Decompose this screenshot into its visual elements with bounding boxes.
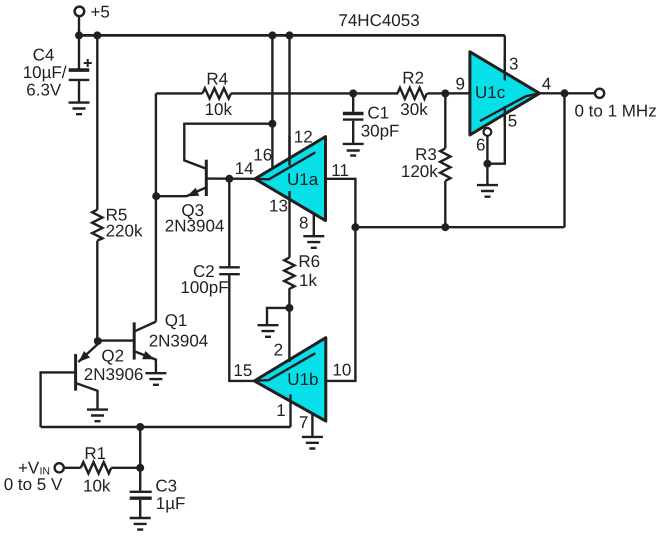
wire Q1 emitter diagonal [135,351,156,372]
wire pin12 into U1a [288,136,290,166]
multiplexer U1b [254,338,325,421]
resistor R3 [440,148,450,180]
capacitor C2 [219,266,240,268]
resistor R5 [92,210,102,241]
wire R4 right to C1 node [231,92,398,94]
wire Q3 base / pin14 [206,177,255,180]
resistor R2 [398,88,427,99]
wire input terminal to R1 [64,467,81,469]
svg-text:1µF: 1µF [156,494,186,513]
resistor R1 [81,462,111,473]
wire Q2 base [41,372,76,427]
wire pin4 output [540,92,596,94]
svg-text:30k: 30k [400,100,428,119]
junction Q3 base / C2 [225,175,233,183]
svg-text:C3: C3 [155,477,177,496]
resistor R4 [203,88,232,98]
junction rail at pin16 [268,31,276,39]
wire R1 to C3 junction [111,467,140,469]
svg-text:C1: C1 [367,104,389,123]
svg-text:1: 1 [276,401,285,420]
wire pin10 of U1b [326,227,356,381]
capacitor C1 [343,112,364,115]
svg-text:10µF/: 10µF/ [23,63,67,82]
junction output node [561,89,569,97]
wire R1/C3 junction vertical [139,427,141,491]
ground Q2 collector [87,410,108,422]
junction bottom rail / R1 [136,423,144,431]
svg-text:16: 16 [253,146,272,165]
wire pin3 drop from rail [504,35,506,80]
wire feedback rail [355,226,564,228]
svg-text:8: 8 [299,214,308,233]
wire top +5 rail [79,34,505,37]
ground U1b pin7 [302,437,323,449]
svg-text:6: 6 [476,135,485,154]
svg-text:9: 9 [456,75,465,94]
svg-text:R2: R2 [402,69,424,88]
ground C1 [343,144,364,156]
svg-text:U1b: U1b [287,370,318,389]
ground C4 [69,103,90,115]
svg-text:R1: R1 [84,444,106,463]
svg-text:10k: 10k [83,477,111,496]
junction pin5 / pin6 / ground [483,160,491,168]
wire pin11 of U1a [326,179,356,227]
svg-text:15: 15 [233,361,252,380]
wire R3 bottom [444,181,446,227]
junction C1 node [349,89,357,97]
terminal output [595,89,604,98]
wire R5 branch upper [96,35,98,209]
wire Q2 emitter diagonal [78,344,98,362]
svg-text:+5: +5 [91,3,110,22]
wire bottom rail [41,426,291,428]
wire pin2 into U1b [288,340,290,362]
svg-text:2N3904: 2N3904 [149,331,209,350]
junction R2/R3/pin9 [441,89,449,97]
wire pin6 to ground [486,136,488,185]
svg-text:2: 2 [274,341,283,360]
wire pin13 to R6 [288,199,290,258]
wire C1 bottom to ground [352,121,354,144]
wire pin5 inside U1c [504,106,506,121]
wire pin3 into U1c [504,55,506,81]
wire R3 top [444,93,446,148]
svg-text:13: 13 [269,196,288,215]
wire R6 bottom to pin2 [288,288,290,340]
wire C3 bottom to ground [139,500,141,518]
junction R1 / C3 [136,464,144,472]
capacitor C4 [69,68,90,72]
multiplexer U1c [470,52,540,135]
ground U1c pin6 [477,185,498,197]
terminal pin6 bubble [484,128,492,136]
capacitor C4 plus sign [84,59,92,67]
svg-text:U1c: U1c [475,83,506,102]
svg-text:30pF: 30pF [361,122,400,141]
wire R5 branch lower [96,241,98,342]
U1b wiper [256,353,316,381]
svg-text:6.3V: 6.3V [26,81,62,100]
wire output drop [563,93,565,227]
svg-text:220k: 220k [106,222,143,241]
wire pin8 to ground [313,213,315,235]
svg-text:100pF: 100pF [180,278,228,297]
wire C2 bottom to pin15 [229,275,254,381]
junction rail at R5 [93,31,101,39]
wire C2 top [228,179,230,266]
junction R5 / Q2 emitter / Q1 base [94,337,102,345]
svg-text:5: 5 [508,111,517,130]
multiplexer U1a [255,137,326,221]
svg-text:2N3904: 2N3904 [165,217,225,236]
svg-text:Q2: Q2 [101,347,124,366]
svg-text:Q1: Q1 [165,311,188,330]
svg-text:12: 12 [294,128,313,147]
transistor Q1 body [133,322,136,359]
svg-text:11: 11 [331,161,349,180]
svg-text:4: 4 [542,74,551,93]
arrow Q3 emitter [187,188,199,197]
wire pin1 into U1b [289,395,291,428]
wire R4 left branch vertical [155,93,157,321]
capacitor C3 [130,491,152,493]
terminal input VIN [55,463,64,472]
arrow Q2 emitter [79,351,91,362]
wire Q2 collector [76,383,97,408]
transistor Q2 body [74,354,77,391]
wire Q3 emitter [156,188,206,197]
junction pin11 / pin10 rail [351,223,359,231]
U1a wiper [256,152,315,179]
junction R3 bottom [441,223,449,231]
svg-text:120k: 120k [401,162,438,181]
ground Q1 emitter [145,373,166,385]
wire pin5 of U1c [487,106,504,164]
wire R2 right to pin 9 [427,92,470,94]
svg-text:U1a: U1a [287,170,319,189]
U1c wiper [480,94,538,121]
wire Q1 base [97,339,134,341]
junction rail at +5 [75,31,83,39]
wire C1 top [352,93,354,111]
svg-text:R6: R6 [298,252,320,271]
svg-text:2N3906: 2N3906 [84,365,144,384]
wire R4 left horizontal [156,92,202,94]
svg-text:1k: 1k [299,271,317,290]
ground U1a pin8 [303,236,324,248]
wire C4 bottom to ground [78,81,80,102]
arrow Q1 emitter [142,351,154,359]
wire Q3 collector [184,124,272,169]
wire Q1 collector diagonal [135,322,156,332]
junction Q3 emitter / R4 branch [152,192,160,200]
svg-text:74HC4053: 74HC4053 [338,11,419,30]
ground R6 node [258,325,279,337]
wire pin13 inside U1a [288,191,290,201]
transistor Q3 body [205,160,208,196]
resistor R6 [284,258,294,289]
ground C3 [130,518,151,530]
wire pin16 line [271,35,273,167]
svg-text:0 to 1 MHz: 0 to 1 MHz [575,101,656,120]
wire pin7 to ground [311,414,313,437]
junction rail at pin12 [286,31,294,39]
wire ground stub at R6 [267,308,289,325]
svg-text:10k: 10k [205,100,233,119]
svg-text:0 to 5 V: 0 to 5 V [4,475,63,494]
svg-text:7: 7 [299,413,308,432]
svg-text:10: 10 [332,360,351,379]
svg-text:3: 3 [509,55,518,74]
junction R6 / ground / pin2 [285,304,293,312]
wire pin12 line [288,35,290,165]
svg-text:C4: C4 [33,45,55,64]
svg-text:R4: R4 [206,70,228,89]
svg-text:14: 14 [235,159,254,178]
terminal +5 [75,7,85,17]
junction Q3 collector / pin16 [268,120,276,128]
wire +5 vertical to C4 [78,16,80,69]
